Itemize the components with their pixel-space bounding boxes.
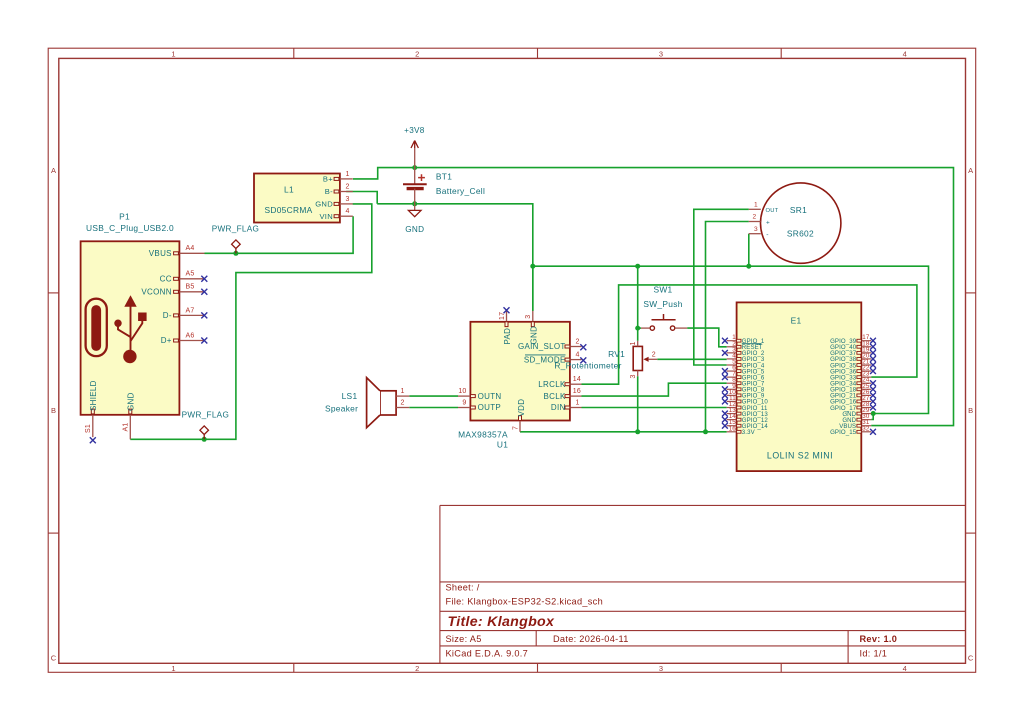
svg-text:Rev: 1.0: Rev: 1.0 bbox=[860, 634, 898, 644]
svg-text:Size: A5: Size: A5 bbox=[446, 634, 482, 644]
switch SW1 left contact bbox=[650, 326, 654, 330]
svg-text:B: B bbox=[51, 406, 56, 415]
switch SW1 right contact bbox=[670, 326, 674, 330]
svg-text:B-: B- bbox=[325, 187, 333, 196]
svg-text:A6: A6 bbox=[186, 332, 195, 339]
E1 pin 3 GPIO_2 no-connect bbox=[727, 352, 737, 354]
svg-text:1: 1 bbox=[401, 388, 405, 395]
svg-text:B: B bbox=[968, 406, 973, 415]
U1 pin 17 PAD no-connect bbox=[506, 311, 508, 322]
E1 pin 2 RESET bbox=[727, 346, 737, 348]
potentiometer RV1 body bbox=[633, 346, 642, 370]
E1 pin 12 GPIO_11 bbox=[727, 407, 737, 409]
L1 pin 3 GND bbox=[340, 203, 353, 205]
svg-text:U1: U1 bbox=[497, 440, 508, 450]
E1 pin 11 GPIO_10 no-connect bbox=[727, 400, 737, 402]
svg-text:A7: A7 bbox=[186, 307, 195, 314]
SR1 pin 3 - bbox=[749, 233, 761, 235]
P1 pin A1 GND bbox=[129, 415, 131, 440]
svg-text:P1: P1 bbox=[119, 212, 130, 222]
E1 pin 9 GPIO_8 no-connect bbox=[727, 388, 737, 390]
E1 pin 4 GPIO_3 bbox=[727, 358, 737, 360]
L1 pin 2 B- bbox=[340, 191, 353, 193]
wire VDD 3.3V rail: U1 VDD to E1 3.3V bbox=[520, 431, 727, 433]
USB logo trident stem and circle bbox=[123, 350, 136, 363]
svg-text:2: 2 bbox=[753, 214, 757, 221]
junction VBUS / PWR_FLAG bbox=[233, 251, 238, 256]
title block outline bbox=[440, 505, 966, 663]
svg-text:D-: D- bbox=[163, 311, 172, 320]
RV1 wiper pin 2 with arrow bbox=[643, 357, 648, 362]
svg-text:E1: E1 bbox=[791, 315, 802, 325]
svg-text:Date: 2026-04-11: Date: 2026-04-11 bbox=[553, 634, 629, 644]
USB logo trident arrow head bbox=[124, 295, 136, 307]
E1 pin 7 GPIO_6 no-connect bbox=[727, 376, 737, 378]
U1 pin 2 GAIN_SLOT no-connect bbox=[570, 346, 582, 348]
svg-text:GAIN_SLOT: GAIN_SLOT bbox=[518, 342, 566, 351]
svg-text:10: 10 bbox=[458, 388, 466, 395]
junction 3.3V rail at SR1 + bbox=[703, 429, 708, 434]
svg-text:RV1: RV1 bbox=[608, 349, 625, 359]
USB logo trident left branch with circle bbox=[118, 326, 131, 337]
wire U1 GND pin3 up bbox=[532, 266, 534, 311]
power flag PWR_FLAG at VBUS bbox=[232, 240, 241, 253]
junction E1 GND pins bbox=[871, 411, 876, 416]
U1 pin 4 SD_MODE no-connect bbox=[570, 359, 582, 361]
switch SW1 left pin bbox=[641, 327, 650, 329]
svg-text:7: 7 bbox=[512, 426, 519, 430]
svg-text:+3V8: +3V8 bbox=[404, 126, 425, 135]
svg-text:3: 3 bbox=[525, 315, 532, 319]
wire SR1 OUT to E1 GPIO_4 bbox=[694, 209, 749, 365]
frame column tick marks bottom bbox=[293, 663, 295, 672]
svg-text:16: 16 bbox=[573, 388, 581, 395]
svg-text:Sheet: /: Sheet: / bbox=[446, 583, 480, 593]
U1 pin 16 BCLK bbox=[570, 395, 582, 397]
svg-text:OUT: OUT bbox=[766, 208, 779, 214]
P1 pin A5 CC with no-connect bbox=[179, 278, 204, 280]
wire pot bottom to 3.3V rail bbox=[637, 376, 639, 432]
svg-text:S1: S1 bbox=[85, 424, 92, 433]
E1 pin 31 VBUS bbox=[861, 425, 871, 427]
svg-text:LS1: LS1 bbox=[342, 391, 358, 401]
power symbol +3V8 bbox=[414, 148, 416, 168]
E1 pin 22 GPIO_36 no-connect bbox=[861, 370, 871, 372]
svg-text:SD05CRMA: SD05CRMA bbox=[264, 205, 312, 215]
svg-text:2: 2 bbox=[346, 183, 350, 190]
battery BT1 top plate bbox=[403, 183, 427, 185]
svg-text:PWR_FLAG: PWR_FLAG bbox=[182, 411, 229, 420]
svg-text:-: - bbox=[766, 232, 768, 239]
svg-text:2: 2 bbox=[401, 399, 405, 406]
svg-text:2: 2 bbox=[415, 50, 419, 59]
E1 pin 8 GPIO_7 bbox=[727, 382, 737, 384]
svg-text:1: 1 bbox=[346, 171, 350, 178]
svg-text:16: 16 bbox=[729, 425, 737, 432]
P1 pin B5 VCONN with no-connect bbox=[179, 291, 204, 293]
speaker LS1 horn bbox=[367, 378, 380, 428]
svg-text:LRCLK: LRCLK bbox=[538, 380, 566, 389]
svg-text:A: A bbox=[51, 166, 56, 175]
wire SR1 - down to GND rail bbox=[748, 234, 750, 267]
E1 pin 17 GPIO_39 no-connect bbox=[861, 340, 871, 342]
junction GND rail at pot branch bbox=[635, 264, 640, 269]
wire BCLK net: U1 BCLK to E1 GPIO_7 bbox=[582, 383, 727, 396]
sheet frame outer border bbox=[48, 48, 976, 672]
SR1 pin 2 + bbox=[749, 221, 761, 223]
E1 pin 15 GPIO_14 no-connect bbox=[727, 425, 737, 427]
E1 pin 28 GPIO_17 no-connect bbox=[861, 407, 871, 409]
svg-text:B+: B+ bbox=[323, 175, 333, 184]
svg-text:3: 3 bbox=[754, 226, 758, 233]
svg-text:+: + bbox=[766, 220, 770, 227]
USB logo pill outline bbox=[86, 299, 107, 356]
E1 pin 14 GPIO_12 no-connect bbox=[727, 419, 737, 421]
svg-text:L1: L1 bbox=[284, 185, 294, 195]
wire L1 B- to battery negative bbox=[346, 192, 377, 204]
E1 pin 29 GND bbox=[861, 413, 871, 415]
svg-text:VBUS: VBUS bbox=[149, 249, 172, 258]
svg-text:DIN: DIN bbox=[551, 403, 566, 412]
wire L1 GND pin3 to P1 GND/PWR_FLAG bbox=[130, 204, 371, 439]
wire speaker pin1 to U1 OUTN bbox=[409, 395, 458, 397]
sheet frame inner border bbox=[59, 58, 966, 663]
switch SW1 right pin bbox=[675, 327, 687, 329]
E1 pin 30 GND bbox=[861, 419, 871, 421]
svg-text:SR602: SR602 bbox=[787, 228, 814, 238]
E1 pin 16 3.3V bbox=[727, 431, 737, 433]
E1 pin 25 GPIO_18 no-connect bbox=[861, 388, 871, 390]
svg-text:PAD: PAD bbox=[503, 328, 512, 345]
E1 pin 24 GPIO_34 no-connect bbox=[861, 382, 871, 384]
svg-text:3: 3 bbox=[659, 664, 663, 673]
U1 pin 3 GND bbox=[532, 311, 534, 322]
wire RV1 wiper to E1 GPIO_3 bbox=[657, 358, 726, 360]
svg-text:CC: CC bbox=[160, 274, 172, 283]
E1 pin 10 GPIO_9 no-connect bbox=[727, 394, 737, 396]
svg-text:9: 9 bbox=[462, 399, 466, 406]
wire pot top to GND rail bbox=[637, 266, 639, 341]
P1 pin S1 SHIELD with no-connect bbox=[92, 415, 94, 437]
svg-text:4: 4 bbox=[346, 208, 350, 215]
SR1 pin 1 OUT bbox=[749, 208, 761, 210]
amplifier U1 body bbox=[470, 322, 570, 421]
svg-text:PWR_FLAG: PWR_FLAG bbox=[212, 225, 259, 234]
wire speaker pin2 to U1 OUTP bbox=[409, 407, 458, 409]
wire DIN net: U1 DIN to E1 GPIO_11 bbox=[582, 407, 727, 409]
L1 pin 4 VIN bbox=[340, 215, 353, 217]
wire LRCLK net: U1 LRCLK to E1 GPIO_33 bbox=[582, 285, 917, 384]
svg-text:A1: A1 bbox=[123, 423, 130, 432]
battery BT1 top pin bbox=[414, 168, 416, 184]
power symbol GND at battery bbox=[414, 204, 416, 211]
L1 pin 1 B+ bbox=[340, 178, 353, 180]
svg-text:A5: A5 bbox=[186, 271, 195, 278]
speaker LS1 body bbox=[380, 391, 396, 415]
E1 pin 5 GPIO_4 bbox=[727, 364, 737, 366]
svg-text:BT1: BT1 bbox=[436, 172, 452, 182]
svg-text:4: 4 bbox=[903, 50, 907, 59]
svg-text:GND: GND bbox=[315, 200, 333, 209]
title block column divider rev/id bbox=[847, 631, 849, 664]
svg-text:2: 2 bbox=[576, 338, 580, 345]
speaker LS1 pin 2 bbox=[396, 407, 409, 409]
speaker LS1 pin 1 bbox=[396, 395, 409, 397]
svg-text:2: 2 bbox=[415, 664, 419, 673]
svg-text:SR1: SR1 bbox=[790, 205, 807, 215]
E1 pin 26 GPIO_21 no-connect bbox=[861, 394, 871, 396]
wire GND rail: battery negative across to E1 GND pin bbox=[377, 204, 533, 311]
U1 pin 10 OUTN bbox=[458, 395, 470, 397]
svg-text:2: 2 bbox=[652, 351, 656, 358]
junction GND rail at SR1 - branch bbox=[746, 264, 751, 269]
U1 pin 14 LRCLK bbox=[570, 383, 582, 385]
svg-text:GND: GND bbox=[127, 392, 136, 411]
svg-text:32: 32 bbox=[862, 425, 870, 432]
junction SW1 left / pot bbox=[635, 326, 640, 331]
title block column divider size/date bbox=[535, 631, 537, 646]
svg-text:3: 3 bbox=[630, 374, 637, 378]
wire SR1 + to 3.3V rail bbox=[706, 222, 749, 432]
svg-text:14: 14 bbox=[573, 376, 581, 383]
E1 pin 1 GPIO_1 no-connect bbox=[727, 340, 737, 342]
svg-text:SW1: SW1 bbox=[653, 285, 672, 295]
wire GND rail horizontal mid bbox=[533, 266, 929, 413]
svg-text:SW_Push: SW_Push bbox=[643, 299, 682, 309]
svg-text:USB_C_Plug_USB2.0: USB_C_Plug_USB2.0 bbox=[86, 223, 174, 233]
USB logo pill inner bbox=[92, 306, 101, 351]
svg-text:1: 1 bbox=[754, 201, 758, 208]
svg-text:GPIO_15: GPIO_15 bbox=[830, 429, 857, 436]
E1 pin 32 GPIO_15 no-connect bbox=[861, 431, 871, 433]
svg-text:1: 1 bbox=[630, 341, 637, 345]
svg-text:Speaker: Speaker bbox=[325, 404, 358, 414]
regulator L1 body bbox=[254, 174, 340, 223]
frame column tick marks top bbox=[293, 48, 295, 58]
svg-text:B5: B5 bbox=[186, 284, 195, 291]
svg-text:VCONN: VCONN bbox=[141, 287, 171, 296]
svg-text:Id: 1/1: Id: 1/1 bbox=[860, 649, 888, 659]
E1 pin 21 GPIO_35 no-connect bbox=[861, 364, 871, 366]
E1 pin 23 GPIO_33 bbox=[861, 376, 871, 378]
wire SW1 left terminal bbox=[638, 327, 641, 329]
RV1 pin 3 bottom bbox=[637, 371, 639, 377]
svg-text:OUTP: OUTP bbox=[478, 403, 501, 412]
sensor SR1 body circle bbox=[761, 183, 841, 263]
switch SW1 actuator bar bbox=[652, 319, 676, 321]
svg-text:Title: Klangbox: Title: Klangbox bbox=[448, 614, 556, 630]
junction GND rail at U1 GND branch bbox=[530, 264, 535, 269]
junction 3.3V rail at pot bottom bbox=[635, 429, 640, 434]
svg-text:C: C bbox=[968, 654, 974, 663]
battery BT1 plus sign bbox=[418, 174, 425, 181]
wire E1 GND pins 29-30 link bbox=[871, 414, 873, 420]
svg-text:4: 4 bbox=[903, 664, 907, 673]
svg-text:LOLIN S2 MINI: LOLIN S2 MINI bbox=[767, 451, 833, 461]
svg-text:A4: A4 bbox=[186, 245, 195, 252]
svg-text:1: 1 bbox=[171, 664, 175, 673]
U1 pin 9 OUTP bbox=[458, 407, 470, 409]
module E1 body bbox=[737, 302, 862, 471]
svg-text:GND: GND bbox=[405, 225, 424, 234]
svg-text:3: 3 bbox=[659, 50, 663, 59]
svg-text:1: 1 bbox=[576, 399, 580, 406]
svg-text:3.3V: 3.3V bbox=[742, 429, 756, 436]
E1 pin 19 GPIO_37 no-connect bbox=[861, 352, 871, 354]
svg-text:3: 3 bbox=[346, 196, 350, 203]
junction battery - rail bbox=[412, 201, 417, 206]
svg-text:4: 4 bbox=[576, 352, 580, 359]
junction GND / PWR_FLAG bottom bbox=[202, 437, 207, 442]
battery BT1 bottom plate bbox=[407, 187, 424, 190]
P1 pin A7 D- with no-connect bbox=[179, 314, 204, 316]
U1 pin 1 DIN bbox=[570, 407, 582, 409]
svg-text:R_Potentiometer: R_Potentiometer bbox=[554, 361, 621, 371]
power flag PWR_FLAG at GND bbox=[200, 426, 209, 439]
frame row tick marks right bbox=[966, 292, 976, 294]
svg-text:OUTN: OUTN bbox=[478, 392, 502, 401]
svg-text:1: 1 bbox=[171, 50, 175, 59]
svg-text:17: 17 bbox=[499, 312, 506, 320]
svg-text:File: Klangbox-ESP32-S2.kicad_: File: Klangbox-ESP32-S2.kicad_sch bbox=[446, 597, 604, 607]
title block row dividers bbox=[440, 581, 966, 583]
wire +BATT net: L1 B+ up to battery rail bbox=[353, 168, 954, 426]
connector P1 body bbox=[81, 241, 180, 414]
svg-text:VIN: VIN bbox=[319, 212, 333, 221]
svg-text:BCLK: BCLK bbox=[543, 392, 565, 401]
E1 pin 13 GPIO_13 no-connect bbox=[727, 413, 737, 415]
svg-text:KiCad E.D.A. 9.0.7: KiCad E.D.A. 9.0.7 bbox=[446, 649, 529, 659]
wire SW1 right terminal to E1 RESET bbox=[687, 328, 727, 347]
svg-text:Battery_Cell: Battery_Cell bbox=[436, 186, 485, 196]
P1 pin A4 VBUS bbox=[179, 252, 204, 254]
E1 pin 6 GPIO_5 no-connect bbox=[727, 370, 737, 372]
P1 pin A6 D+ with no-connect bbox=[179, 340, 204, 342]
svg-text:SHIELD: SHIELD bbox=[89, 380, 98, 411]
frame row tick marks left bbox=[48, 292, 59, 294]
svg-text:C: C bbox=[51, 654, 57, 663]
wire VBUS net: P1 pin A4 to L1 VIN bbox=[205, 216, 354, 253]
svg-text:VDD: VDD bbox=[517, 399, 526, 417]
battery BT1 bottom pin bbox=[414, 189, 416, 204]
E1 pin 27 GPIO_16 no-connect bbox=[861, 400, 871, 402]
svg-text:MAX98357A: MAX98357A bbox=[458, 429, 508, 439]
U1 pin 7 VDD bbox=[519, 421, 521, 432]
RV1 pin 1 top bbox=[637, 341, 639, 347]
E1 pin 20 GPIO_38 no-connect bbox=[861, 358, 871, 360]
USB logo trident right branch with square bbox=[131, 321, 143, 342]
E1 pin 18 GPIO_40 no-connect bbox=[861, 346, 871, 348]
svg-text:D+: D+ bbox=[161, 336, 172, 345]
junction battery + rail bbox=[412, 165, 417, 170]
svg-text:A: A bbox=[968, 166, 973, 175]
